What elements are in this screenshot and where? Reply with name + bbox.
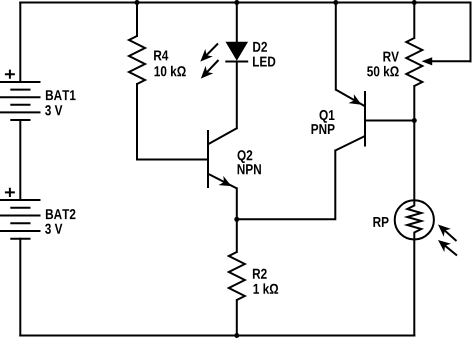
transistor Q2 base bar [207, 130, 209, 188]
wire node to Q1 collector [237, 151, 335, 220]
photoresistor RP light arrow 2 [438, 240, 457, 256]
wire bottom rail [20, 335, 414, 337]
battery BAT2 [0, 200, 41, 239]
wire Q2 emitter to node [236, 188, 238, 219]
resistor R4 [129, 36, 145, 84]
label RP [373, 217, 388, 227]
node junction dot (Q1 base / RP) [412, 118, 417, 123]
wire top rail to LED anode [236, 3, 238, 44]
value label 10 kOhm [155, 66, 186, 77]
node junction dot (top rail / R4) [135, 0, 140, 5]
wire wiper horizontal [431, 60, 471, 62]
label PNP [312, 124, 335, 134]
node junction dot (Q2 emitter / R2 / Q1 collector) [234, 217, 239, 222]
wire left top (to BAT1 +) [19, 3, 21, 82]
wire right side (RV wiper return) [470, 3, 472, 62]
label NPN [238, 164, 261, 174]
transistor Q1 base bar [364, 91, 366, 147]
LED D2 [225, 42, 248, 61]
wire R2 to bottom rail [236, 300, 238, 336]
transistor Q1 emitter lead with arrow [336, 90, 365, 107]
battery BAT1 [0, 82, 41, 120]
label RV [383, 52, 399, 62]
wire top rail to RV [413, 3, 415, 39]
label Q1 [320, 110, 335, 123]
wire top rail to Q1 emitter [335, 3, 337, 90]
label BAT1 [46, 90, 76, 100]
wire node to R2 [236, 219, 238, 252]
label LED [253, 57, 275, 67]
node junction dot (top rail / RV) [412, 0, 417, 5]
LED D2 light arrow 1 [200, 44, 218, 62]
transistor Q2 collector lead [209, 128, 237, 144]
wire top rail [20, 2, 470, 4]
label R2 [253, 269, 267, 279]
transistor Q2 emitter lead with arrow [209, 174, 237, 188]
label R4 [154, 51, 168, 61]
wire LED cathode to Q2 collector [236, 62, 238, 129]
potentiometer RV resistor body [406, 38, 422, 86]
node junction dot (top rail / LED) [234, 0, 239, 5]
wire RV to Q1 base node [413, 86, 415, 121]
battery BAT1 plus sign [5, 70, 15, 79]
value label 50 kOhm [367, 66, 399, 77]
wire RP to bottom rail [413, 240, 415, 336]
node junction dot (R2 / bottom rail) [234, 333, 239, 338]
wire R4 to Q2 base [137, 84, 208, 160]
label Q2 [238, 150, 253, 163]
value label 1 kOhm [254, 283, 279, 293]
value label 3 V (BAT2) [45, 224, 62, 234]
LED D2 light arrow 2 [201, 60, 219, 79]
label BAT2 [46, 209, 76, 219]
photoresistor RP light arrow 1 [438, 225, 457, 242]
transistor Q1 base wire [365, 120, 414, 122]
potentiometer RV wiper arrow [422, 57, 433, 65]
wire top rail to R4 [136, 3, 138, 37]
node junction dot (top rail / Q1 emitter) [333, 0, 338, 5]
label D2 [253, 42, 267, 52]
photoresistor RP [395, 200, 434, 239]
transistor Q1 collector lead [335, 136, 365, 151]
resistor R2 [229, 252, 245, 300]
wire between BAT1 and BAT2 [19, 120, 21, 200]
value label 3 V (BAT1) [45, 105, 62, 115]
battery BAT2 plus sign [5, 188, 15, 197]
wire BAT2 to bottom rail [19, 239, 21, 336]
wire Q1 base node to RP [413, 121, 415, 201]
